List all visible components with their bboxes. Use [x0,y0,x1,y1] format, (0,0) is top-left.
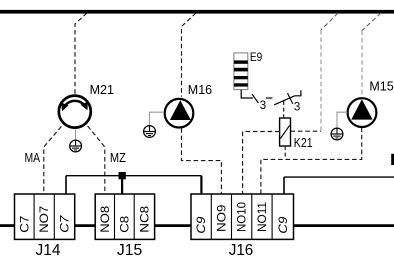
wire: E9 down and right [241,90,253,98]
pump M16 [165,83,212,128]
svg-text:MZ: MZ [110,150,126,165]
svg-text:NO10: NO10 [237,202,249,232]
wire: mechanical link blade to K21 [283,101,285,118]
pump M15 [348,79,394,127]
svg-text:C9: C9 [196,216,208,234]
wire: drop from C9 right wire [283,177,285,194]
wire: dashed K21 left to terminal NO10 [243,132,280,195]
wire: dashed M16 to terminal NO9 [182,128,222,194]
wire: dashed drop from bus to K21 net [321,13,338,30]
clipped label at right edge [391,154,394,165]
svg-text:M21: M21 [90,83,114,97]
contactor coil K21 [280,118,313,150]
svg-text:MA: MA [25,150,41,165]
wire: M21 earth stem [75,129,77,140]
wire: dashed drop from bus to M16 [182,13,197,97]
wire: drop to J15 C8 [121,178,123,194]
svg-text:C7: C7 [60,215,72,233]
wire: dashed drop from bus to M21 [75,13,87,95]
3-pole slash on blade [288,93,293,104]
ground (M16 earth) [144,126,156,138]
svg-text:C9: C9 [278,216,290,234]
svg-text:M16: M16 [188,83,212,97]
wire: M15 earth stub [337,112,347,128]
svg-text:J15: J15 [117,242,142,259]
svg-text:NO7: NO7 [39,206,51,233]
wire: M16 earth stub [150,112,165,125]
contact blade of K21 (3-pole) [274,96,295,105]
wire: C9 right to edge [284,176,394,178]
svg-text:NO8: NO8 [100,206,112,233]
svg-text:C7: C7 [19,216,31,233]
ground (M15 earth) [331,128,343,140]
wire: drop to J16 C9 (left) [200,176,202,194]
wire: mains thick wire segments [0,224,15,227]
ground (M21 earth) [70,140,82,152]
svg-text:E9: E9 [250,50,262,64]
wire: drop to J14 C7 [65,176,67,194]
svg-text:C8: C8 [119,216,131,233]
wire: dashed K21 right to bus drop [291,130,322,132]
svg-text:K21: K21 [294,135,313,150]
wire: dash segment to contact [266,97,273,99]
3-conductor slash [252,94,258,103]
wire: contact right terminal [295,90,301,96]
svg-text:M15: M15 [369,79,393,93]
wire: dashed net NO11 - K21 - M15 [261,128,362,194]
power bus (top thick line) [0,10,394,14]
svg-text:3: 3 [294,102,300,114]
wire: dashed M21 to MZ terminal [88,126,105,194]
junction node [119,172,126,179]
terminal block J16 [191,194,294,259]
svg-text:J16: J16 [229,242,254,259]
svg-text:3: 3 [260,100,266,112]
wire: dashed drop from bus to M15 [362,13,381,31]
svg-text:J14: J14 [36,242,61,259]
terminal block J14 [15,194,75,259]
svg-text:NC8: NC8 [139,206,151,233]
wire: common thin wire C7/C8/C9 [66,175,201,177]
svg-text:NO11: NO11 [257,202,269,232]
terminal block J15 [95,194,154,259]
actuator M21 [59,83,114,128]
wire: dashed K21 bottom stem [284,146,286,159]
heater E9 [234,50,262,90]
svg-text:NO9: NO9 [216,205,228,233]
wire: dashed M21 to MA terminal [44,126,62,194]
